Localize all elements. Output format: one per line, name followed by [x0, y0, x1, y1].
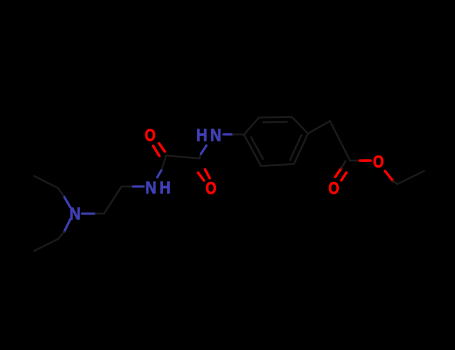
benzene inner aromatic line top	[263, 121, 287, 123]
wire: upper-left ethyl CH2-CH3 bond	[34, 176, 58, 188]
capacitor-like: ester C=O3 double bond (red)	[335, 168, 346, 180]
wire: N1 to upper ethyl CH2 bond	[58, 188, 70, 207]
wire: lower-left ethyl CH2-CH3 bond	[34, 239, 58, 251]
wire: right ethyl CH2-CH3 bond	[398, 171, 425, 184]
svg-text:N: N	[210, 126, 221, 145]
wire: C2 up to HN2 bond	[200, 145, 207, 158]
benzene inner aromatic line left	[251, 137, 263, 159]
wire: central oxalyl C1-C2 bond	[166, 156, 200, 159]
wire: ring to benzylic CH2 bond	[308, 121, 330, 134]
svg-text:N: N	[70, 204, 81, 223]
svg-text:O: O	[206, 179, 217, 198]
wire: benzylic CH2 to ester carbonyl C bond	[330, 121, 350, 161]
svg-text:O: O	[373, 153, 384, 172]
wire: HN2 to ring ipso bond (horizontal)	[224, 133, 245, 135]
svg-text:O: O	[145, 127, 156, 146]
capacitor-like: C2=O2 double bond (red)	[198, 169, 210, 180]
svg-text:O: O	[328, 180, 339, 199]
wire: NH1 up to carbonyl C1 bond	[157, 156, 166, 178]
wire: N1 to lower ethyl CH2 bond	[58, 219, 70, 239]
wire: N1 to chain CH2 bond (horizontal)	[82, 212, 104, 214]
node HN2: right amide nitrogen label	[196, 126, 221, 145]
capacitor-like: C1=O1 double bond (red)	[153, 143, 164, 156]
node NH1: left amide nitrogen label	[145, 179, 170, 198]
svg-text:H: H	[196, 126, 207, 145]
svg-text:H: H	[159, 179, 170, 198]
svg-text:N: N	[145, 179, 156, 198]
benzene ring outline	[244, 117, 308, 166]
benzene inner aromatic line right	[290, 135, 302, 160]
wire: chain CH2 to NH1 bond (horizontal)	[122, 186, 144, 188]
wire: ester C to O4 single bond (horizontal)	[350, 160, 371, 162]
wire: chain CH2-CH2 bond	[104, 187, 122, 214]
wire: O4 to ethyl CH2 bond	[385, 171, 398, 184]
